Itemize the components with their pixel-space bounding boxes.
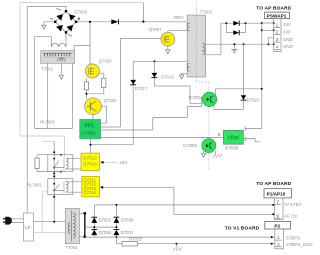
svg-text:390V: 390V: [173, 15, 183, 20]
center tap wire: [85, 226, 117, 228]
ground arrow (bridge minus): [42, 25, 46, 29]
wire IC7004 collector to 24V bus: [215, 89, 261, 95]
wire pin3 jog: [268, 38, 273, 44]
wire RL7002 to relay chain: [42, 140, 54, 142]
wire PFC staircase to IC7004: [101, 98, 203, 130]
wire AC line from bridge top around left down to LF: [27, 6, 66, 213]
thick bar: [84, 213, 86, 237]
transistor Q7003: [85, 58, 112, 78]
wire GND line from T7002 to connector pin4: [206, 43, 274, 45]
svg-text:24V: 24V: [119, 160, 127, 165]
wire D7016 to IC7004 LED side: [154, 86, 202, 104]
svg-text:IC7004: IC7004: [189, 95, 203, 100]
wire D7022 loop to IC7004 emitter: [214, 104, 244, 110]
relay RL7001 switch 2: [48, 179, 82, 195]
svg-text:VRef: VRef: [228, 136, 240, 142]
wire Q7004 base loop: [101, 106, 107, 123]
ground arrow under Q7007: [166, 50, 170, 54]
svg-text:7V STBY: 7V STBY: [284, 202, 302, 207]
wire LF to T7004 (top): [34, 221, 66, 223]
earth ground on GND line: [231, 43, 237, 52]
wires plug to LF: [12, 219, 24, 223]
resistor (relay coil parallel): [35, 154, 62, 173]
wire PFC bottom to D7017 line and Q7012 box: [91, 139, 134, 153]
svg-text:24V: 24V: [283, 22, 291, 27]
diode D7008 on rail: [111, 19, 118, 24]
resistor below Q7003: [84, 82, 88, 90]
diode D7031: [114, 229, 134, 235]
svg-text:PSWAP1: PSWAP1: [267, 13, 287, 18]
relay RL7002: [35, 63, 73, 128]
svg-text:Q7016: Q7016: [83, 190, 96, 195]
relay RL7001 switch 1: [48, 155, 81, 172]
transformer T7002: [187, 3, 212, 170]
STBPS rail to P2 pin1: [85, 236, 275, 238]
connector P1/AP10: [256, 181, 301, 220]
svg-text:D7022: D7022: [247, 98, 260, 103]
diode (lower of pair): [233, 30, 239, 35]
svg-text:STBPS: STBPS: [286, 235, 300, 240]
bridge rectifier D7002: [50, 9, 87, 37]
chassis ground IC7003 right: [214, 151, 216, 154]
svg-text:LF: LF: [25, 225, 31, 230]
transistor Q7007: [149, 27, 175, 46]
wires to PSWAP1 pins 1,2: [262, 23, 274, 30]
wire light from relay area down to LF out: [42, 191, 48, 232]
wire rail tap down to T7001/Q7003: [74, 22, 90, 65]
wire VRef pin1 to 24V bus: [246, 128, 262, 130]
svg-text:IC7006: IC7006: [225, 146, 239, 151]
diode D7026: [91, 229, 111, 235]
diode D7017: [130, 61, 148, 144]
diode D7025: [91, 205, 111, 237]
wire stub to IC7003 top: [202, 138, 204, 140]
connector P2: [225, 222, 313, 249]
line filter LF: [23, 213, 33, 241]
wire LF to T7004 (bottom, light): [34, 231, 66, 233]
wire bridge bottom to T7001 coil: [65, 34, 67, 47]
svg-text:PFC: PFC: [85, 124, 95, 130]
svg-text:GND: GND: [283, 44, 293, 49]
diode D7022: [241, 44, 260, 109]
diode D7030: [114, 205, 134, 244]
svg-text:D7030: D7030: [121, 218, 134, 223]
24V bus: [261, 23, 263, 129]
AC On drive arrow and wire: [100, 186, 103, 189]
optocoupler IC7004: [189, 92, 217, 106]
svg-text:Q7003: Q7003: [99, 58, 113, 63]
resistor R7025: [116, 237, 275, 246]
svg-text:TO V1 BOARD: TO V1 BOARD: [225, 226, 260, 232]
rectifier diode pair stubs: [226, 23, 261, 32]
svg-text:Q7012: Q7012: [83, 156, 97, 161]
svg-text:AC On: AC On: [284, 213, 298, 218]
transformer T7001: [35, 37, 75, 129]
connector PSWAP1: [256, 6, 292, 52]
svg-text:GND: GND: [283, 37, 293, 42]
24V stub arrow: [100, 161, 103, 164]
wire AC line (light) top loop to 390V rail: [20, 3, 143, 137]
svg-text:D7025: D7025: [99, 218, 112, 223]
wire from top light run down to rail junction: [142, 3, 144, 22]
wire PFC gate drive to Q7007: [101, 39, 161, 127]
svg-text:RL7001: RL7001: [27, 182, 43, 187]
svg-text:RL7002: RL7002: [40, 120, 56, 125]
wire Q7004 emitter to PFC: [92, 114, 94, 119]
svg-text:Q7004: Q7004: [104, 98, 118, 103]
transistors Q7012/Q7014 box: [81, 153, 99, 170]
wire across to T7002 lower pin: [133, 60, 190, 62]
svg-text:STBPS_GND: STBPS_GND: [286, 242, 313, 247]
svg-text:D7031: D7031: [121, 230, 134, 235]
resistor right of Q7003: [102, 78, 106, 87]
regulator VRef IC7006: [218, 125, 248, 150]
transistor Q7004: [85, 98, 118, 115]
wire PFC to VRef pin3: [101, 137, 224, 139]
svg-text:Q7014: Q7014: [83, 162, 97, 167]
svg-text:T7002: T7002: [200, 10, 213, 15]
svg-text:T7004: T7004: [65, 245, 78, 250]
ground arrow IC7003 left: [203, 152, 205, 154]
AC plug: [3, 217, 12, 225]
svg-text:24V: 24V: [283, 30, 291, 35]
svg-text:IC7003: IC7003: [183, 143, 197, 148]
wire DC rail 390V: [76, 21, 187, 23]
svg-text:TO AP BOARD: TO AP BOARD: [256, 181, 291, 187]
svg-text:P2: P2: [274, 224, 280, 229]
diode (upper of pair): [233, 21, 239, 26]
svg-text:TO AP BOARD: TO AP BOARD: [256, 6, 291, 12]
svg-text:D7026: D7026: [99, 230, 112, 235]
svg-text:Q7007: Q7007: [149, 27, 163, 32]
svg-text:D7016: D7016: [161, 74, 174, 79]
wire bridge minus to chassis arrow: [44, 22, 55, 25]
svg-text:D7017: D7017: [135, 86, 148, 91]
chassis ground on STBPS_GND: [173, 243, 182, 251]
wire VRef pin2 stub: [243, 138, 260, 141]
wire secondary upper pin to rectifier pair: [206, 23, 227, 55]
transistors Q7011/Q7013/Q7015/Q7016 box: [82, 176, 100, 196]
svg-text:P1/AP10: P1/AP10: [267, 192, 286, 197]
optocoupler IC7003: [183, 139, 216, 153]
wire Q7007 drain to T7002 coil: [168, 31, 189, 33]
svg-text:IC7002: IC7002: [81, 131, 96, 136]
wire light vertical into relay coil: [63, 136, 65, 157]
wire T7002 lower-left pin to ground arrow: [182, 73, 188, 75]
svg-text:D7002: D7002: [75, 9, 88, 14]
svg-text:R7025: R7025: [129, 237, 142, 242]
transformer T7004: [65, 208, 79, 249]
diode D7016: [152, 61, 175, 86]
wires T7004 to bus bar: [79, 213, 84, 237]
wire Q7007 source to ground: [167, 46, 169, 50]
junction dots: [89, 21, 91, 23]
7V STBY rail: [94, 204, 273, 206]
IC PFC / IC7002: [80, 119, 101, 138]
